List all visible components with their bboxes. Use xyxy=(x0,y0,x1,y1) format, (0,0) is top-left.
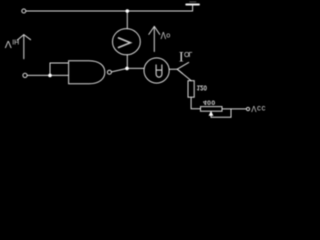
svg-text:OL: OL xyxy=(184,50,193,57)
svg-text:o: o xyxy=(166,31,170,40)
svg-text:IH: IH xyxy=(12,37,19,44)
svg-text:120: 120 xyxy=(197,83,208,91)
svg-text:V: V xyxy=(5,38,12,49)
svg-text:I: I xyxy=(179,48,184,64)
svg-text:Vcc: Vcc xyxy=(251,104,266,113)
svg-text:400: 400 xyxy=(203,98,216,105)
